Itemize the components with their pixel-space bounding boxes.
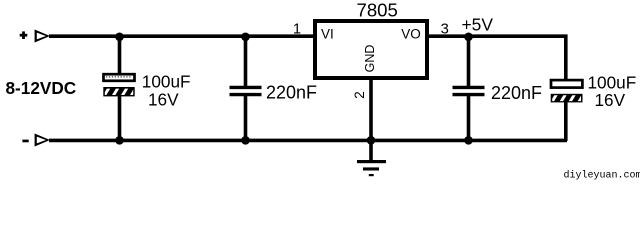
wire C1 top branch (118, 36, 122, 74)
node junction dot top rail at +5V branch (464, 33, 473, 42)
label 7805 (357, 0, 398, 21)
node junction dot bottom rail at C1 (115, 136, 124, 145)
wire 220nF input cap top branch (244, 36, 248, 87)
terminal + (input positive connector) (20, 30, 50, 43)
svg-text:VO: VO (401, 27, 421, 42)
svg-text:GND: GND (363, 45, 377, 73)
capacitor 100uF/16V electrolytic (output) (551, 80, 584, 103)
wire C1 bottom branch (118, 95, 122, 141)
wire 220nF output cap bottom branch (467, 96, 471, 142)
wire output electrolytic bottom branch (564, 101, 568, 141)
capacitor 220nF (output side) (453, 87, 485, 94)
wire top-right rail (VO pin to output cap, with corner) (426, 36, 566, 80)
pin label VI (321, 27, 334, 42)
node junction dot bottom rail at input 220nF (241, 136, 250, 145)
label +5V (462, 14, 494, 34)
terminal - (input negative connector) (22, 134, 50, 147)
pin number 1 (293, 22, 301, 38)
node junction dot top rail at input 220nF (241, 33, 250, 42)
svg-text:16V: 16V (595, 90, 626, 110)
svg-text:220nF: 220nF (491, 83, 542, 103)
svg-text:1: 1 (293, 22, 301, 38)
label 100uF 16V (output cap) (588, 72, 637, 110)
svg-text:8-12VDC: 8-12VDC (6, 78, 77, 98)
wire top-left rail (+ terminal to VI pin) (49, 34, 316, 38)
label 8-12VDC (6, 78, 77, 98)
node junction dot top rail at C1 (115, 33, 124, 42)
wire bottom rail (- terminal to output cap) (49, 139, 567, 143)
capacitor 220nF (input side) (230, 87, 262, 94)
wire 220nF output cap top branch (467, 36, 471, 87)
ground symbol (357, 160, 386, 176)
watermark diyleyuan.com (564, 170, 640, 182)
pin number 3 (441, 22, 449, 38)
svg-text:16V: 16V (148, 90, 179, 110)
regulator U1 7805 body (315, 21, 427, 78)
label 220nF (output cap) (491, 83, 542, 103)
label 220nF (input cap) (266, 83, 317, 103)
node junction dot bottom rail at output 220nF (464, 136, 473, 145)
capacitor C1 100uF/16V electrolytic (input) (103, 74, 136, 97)
svg-text:+5V: +5V (462, 14, 494, 34)
svg-text:220nF: 220nF (266, 83, 317, 103)
node junction dot bottom rail at GND pin (367, 136, 376, 145)
svg-text:VI: VI (321, 27, 334, 42)
label 100uF 16V (input cap) (142, 72, 191, 110)
wire 220nF input cap bottom branch (244, 96, 248, 142)
wire pin2 GND down to ground (369, 76, 373, 161)
pin number 2 (rotated) (352, 91, 367, 99)
svg-text:2: 2 (352, 91, 367, 99)
pin label VO (401, 27, 421, 42)
svg-text:7805: 7805 (357, 0, 398, 21)
svg-text:diyleyuan.com: diyleyuan.com (564, 170, 640, 182)
pin label GND (rotated) (363, 45, 377, 73)
